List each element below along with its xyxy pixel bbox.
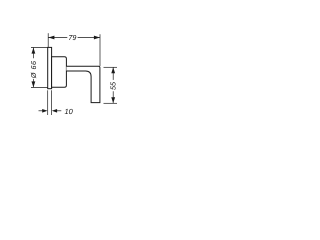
dim 79: left arrowhead bbox=[48, 36, 54, 40]
dim 10: right extension line bbox=[51, 90, 53, 115]
dim Ø66: bottom arrowhead bbox=[32, 81, 36, 87]
dim 10: right tail line bbox=[57, 110, 62, 112]
dim 10: left tail line bbox=[39, 110, 44, 112]
lever handle (arm + grip) bbox=[66, 66, 100, 102]
dim 55: bottom arrowhead bbox=[111, 97, 115, 103]
dim Ø66: top extension line (merges with plate top edge) bbox=[31, 46, 48, 48]
svg-text:10: 10 bbox=[64, 107, 73, 116]
dim 55: top arrowhead bbox=[111, 67, 115, 73]
svg-text:79: 79 bbox=[68, 33, 76, 42]
dim Ø66: top arrowhead bbox=[32, 48, 36, 54]
dim Ø66: bottom extension line bbox=[31, 87, 48, 89]
valve hub bbox=[52, 57, 67, 87]
dim 79: left extension line bbox=[47, 33, 49, 47]
escutcheon plate (side view) bbox=[48, 47, 52, 88]
dim 79: right arrowhead bbox=[94, 36, 100, 40]
svg-text:Ø 66: Ø 66 bbox=[29, 61, 38, 80]
dim 79: right extension line bbox=[99, 34, 101, 66]
svg-text:55: 55 bbox=[109, 81, 118, 90]
dim 10: left arrowhead (points right) bbox=[42, 109, 47, 113]
dim 10: right arrowhead (points left) bbox=[52, 109, 57, 113]
dim Ø66: dimension line bbox=[32, 48, 34, 87]
dim 55: bottom extension line bbox=[104, 102, 118, 104]
dim 10: left extension line bbox=[47, 90, 49, 115]
dim 79: dimension line bbox=[48, 37, 99, 39]
dim 55: dimension line bbox=[112, 68, 114, 104]
dim 55: top extension line bbox=[104, 66, 118, 68]
